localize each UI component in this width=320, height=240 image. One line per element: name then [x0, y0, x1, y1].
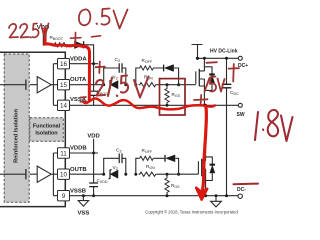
transistor Q1 top MOSFET: [196, 58, 212, 105]
capacitor CZ B branch: [104, 158, 126, 174]
red plus-minus at DBOOT: [71, 33, 101, 44]
svg-text:10: 10: [60, 172, 68, 179]
handwriting 15V at MOSFET: [205, 77, 225, 92]
resistor RGS A: [166, 83, 169, 86]
red plus at CBOOT top: [96, 62, 105, 74]
wire channel B input: [0, 173, 37, 175]
diode DOFF B: [155, 158, 179, 174]
resistor RBOOT: [53, 43, 69, 47]
branch ROFF/DOFF B: [134, 173, 137, 176]
ground VSS: [82, 194, 85, 197]
functional isolation box: [30, 118, 64, 142]
svg-text:9: 9: [62, 193, 66, 200]
wire bracket B: [51, 153, 57, 196]
wire gate B: [157, 173, 198, 175]
capacitor CZ A branch: [104, 68, 126, 85]
zener VZ A: [102, 83, 105, 86]
terminal SW: [238, 103, 242, 107]
svg-text:VDDB: VDDB: [70, 146, 87, 152]
svg-text:OUTA: OUTA: [70, 77, 87, 83]
svg-text:VDD: VDD: [87, 133, 99, 139]
op-amp buffer A: [37, 77, 51, 93]
svg-text:Functional: Functional: [33, 124, 61, 130]
wire VSSA / SW line: [70, 104, 239, 106]
wire DBOOT to VDDA node: [84, 45, 94, 64]
red trace down to bottom arrow: [203, 107, 207, 191]
svg-text:14: 14: [60, 103, 68, 110]
wire channel A input: [0, 84, 37, 86]
svg-text:SW: SW: [237, 112, 245, 118]
HV DC-Link T rail: [192, 45, 203, 59]
wire OUTB: [70, 173, 105, 175]
red minus marks at CBOOT bottom: [80, 97, 86, 102]
wire gate A: [157, 84, 196, 86]
handwriting 1.8V: [255, 110, 293, 141]
wire VDD to VDDB: [93, 139, 95, 153]
isolation capacitor B: [25, 169, 27, 179]
wire RBOOT to DBOOT: [69, 44, 75, 46]
terminal DC-: [238, 194, 242, 198]
svg-text:VSS: VSS: [78, 211, 90, 217]
capacitor CVDD: [93, 153, 95, 196]
red trace VDD through RBOOT DBOOT down: [45, 30, 90, 101]
pin 16 box: [58, 59, 70, 69]
red squiggle along VSSA/SW: [83, 98, 215, 109]
ground bottom: [215, 194, 218, 197]
resistor ROFF B: [139, 156, 155, 160]
diode DBOOT: [75, 41, 84, 48]
resistor RON A: [139, 83, 157, 87]
svg-text:HV DC-Link: HV DC-Link: [210, 49, 238, 55]
wire top rail: [198, 57, 239, 59]
pin 10 box: [58, 169, 70, 179]
resistor ROFF A: [139, 66, 155, 70]
svg-text:OUTB: OUTB: [70, 167, 87, 173]
IC body outline (cropped at left): [0, 52, 65, 206]
zener VZ B: [102, 173, 105, 176]
branch ROFF/DOFF A: [134, 83, 137, 86]
pin 15 box: [58, 80, 70, 90]
reinforced isolation bar: [4, 54, 29, 202]
red plus at DC+: [229, 64, 239, 82]
capacitor CDC: [226, 58, 228, 195]
svg-text:16: 16: [60, 61, 68, 68]
wire VDD to RBOOT: [43, 30, 53, 45]
wire VDDA: [70, 63, 99, 65]
resistor RGS B: [166, 173, 169, 176]
red arrowhead: [196, 188, 207, 200]
wire OUTA: [70, 84, 105, 86]
svg-text:VDDA: VDDA: [70, 56, 87, 62]
svg-text:11: 11: [60, 150, 67, 157]
node VDDA junction: [92, 62, 95, 65]
handwriting 21.5V: [96, 76, 149, 98]
svg-text:Isolation: Isolation: [35, 131, 57, 137]
transistor Q2 bottom MOSFET: [198, 105, 212, 195]
red plus below top MOSFET: [194, 95, 208, 105]
wire VSSB / DC- rail: [70, 195, 239, 197]
wire bracket A: [51, 64, 57, 106]
pin 11 box: [58, 148, 70, 158]
diode DOFF A: [155, 68, 179, 85]
resistor RON B: [139, 172, 157, 176]
red minus above top MOSFET: [207, 61, 217, 64]
handwriting 22.5V: [9, 24, 49, 39]
svg-text:VSSB: VSSB: [70, 188, 86, 194]
terminal DC+: [238, 56, 242, 60]
svg-text:DC-: DC-: [237, 187, 246, 193]
handwriting 0.5V: [79, 9, 128, 29]
svg-text:15: 15: [60, 82, 68, 89]
wire VDDB: [70, 152, 99, 154]
isolation capacitor A: [25, 80, 27, 90]
pin 14 box: [58, 100, 70, 110]
svg-text:Copyright © 2018, Texas Instru: Copyright © 2018, Texas Instruments Inco…: [145, 209, 238, 214]
op-amp buffer B: [37, 166, 51, 182]
capacitor CBOOT: [93, 64, 95, 106]
svg-text:Reinforced Isolation: Reinforced Isolation: [14, 109, 20, 163]
red line above DC-: [234, 183, 259, 186]
highlight box around RGS A: [160, 79, 186, 115]
pin 9 box: [58, 191, 70, 201]
